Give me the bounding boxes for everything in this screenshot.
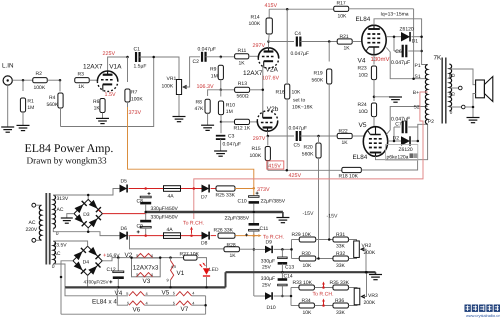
resistor R7 100K plate load [126, 56, 129, 59]
resistor R13 560ohm [221, 89, 235, 91]
svg-text:4,5: 4,5 [171, 264, 176, 269]
ground PSU main [276, 218, 289, 223]
wire V2b plate row 297V [268, 131, 295, 136]
svg-text:Iq=13~15ma: Iq=13~15ma [381, 12, 409, 18]
svg-text:AC: AC [57, 207, 64, 213]
svg-text:R2: R2 [36, 71, 43, 77]
LED red indicator [203, 268, 210, 275]
svg-text:0.047µF: 0.047µF [198, 46, 216, 52]
svg-text:V5: V5 [359, 122, 367, 129]
resistor R18 10K dropper [342, 167, 362, 172]
wire bias left node lower [290, 288, 292, 306]
EL84 heater right edge [205, 296, 207, 314]
wire V4 cathode to R23 [373, 55, 375, 65]
svg-text:C6: C6 [395, 49, 402, 55]
diode D10 bias rectifier [254, 295, 265, 297]
node input junction [22, 79, 25, 82]
resistor R24 10ohm cathode [371, 103, 376, 117]
svg-text:0.047µF: 0.047µF [291, 51, 309, 57]
svg-text:C2: C2 [193, 59, 200, 65]
svg-text:1K: 1K [94, 106, 101, 112]
node -15V left line joins [317, 257, 320, 260]
potentiometer VR3 200K bias balance [354, 288, 360, 305]
svg-text:D8: D8 [201, 240, 208, 246]
diode D1 Z6120 snubber [394, 36, 401, 38]
svg-text:4A: 4A [167, 227, 174, 233]
svg-text:22µF/385V: 22µF/385V [225, 216, 250, 222]
svg-text:AC: AC [29, 220, 36, 226]
svg-text:415V: 415V [265, 3, 278, 9]
fuse 4A upper [164, 186, 181, 192]
svg-text:R24: R24 [358, 102, 367, 108]
svg-text:4: 4 [192, 300, 195, 305]
node V2b plate junction [267, 135, 270, 138]
svg-text:R32: R32 [336, 251, 345, 257]
node D4 left column [60, 276, 63, 279]
bridge rectifier D3 [74, 199, 102, 227]
svg-text:106.3V: 106.3V [197, 84, 214, 90]
transformer 7K output - primary winding [425, 65, 427, 125]
svg-text:10K~16K: 10K~16K [292, 105, 313, 111]
node C8 top [144, 187, 147, 190]
svg-text:373V: 373V [257, 187, 270, 193]
svg-text:V1: V1 [177, 270, 185, 277]
node C6 right branch [420, 50, 423, 53]
ground below R8 [201, 125, 214, 130]
resistor R11 1K grid stopper [235, 54, 249, 59]
svg-text:R31: R31 [336, 232, 345, 238]
svg-text:R27 10K: R27 10K [180, 251, 200, 257]
wire 415V dropper line down through R16 [286, 9, 288, 83]
wire common cathode link V2A-V2b [263, 66, 264, 113]
wire secondary top tap 8ohm [449, 69, 475, 85]
wire junction to R8 [208, 90, 221, 96]
node R34-R36 junction with arrow [322, 304, 325, 307]
svg-text:D1: D1 [412, 38, 419, 44]
capacitor C3 0.047uF [220, 122, 222, 133]
heater link to bias ground bus [225, 272, 227, 287]
wire secondary mid tap 4ohm [449, 87, 458, 89]
resistor R9 1M grid leak [220, 57, 222, 59]
svg-text:R19: R19 [314, 70, 323, 76]
transformer 313V HV secondary winding [53, 195, 55, 229]
svg-text:12AX7: 12AX7 [243, 70, 263, 77]
svg-text:200K: 200K [364, 250, 376, 256]
svg-text:R12 1K: R12 1K [234, 126, 251, 132]
svg-text:R23: R23 [358, 65, 367, 71]
svg-text:4A: 4A [168, 194, 175, 200]
node R33-R35 junction with arrow [322, 286, 325, 289]
triode V2A 12AX7 [258, 48, 278, 58]
wire bus to ground stub [375, 272, 377, 274]
svg-text:12AX7: 12AX7 [83, 63, 103, 70]
wire D3 left to ground [67, 214, 74, 218]
svg-text:12AX7x3: 12AX7x3 [133, 264, 159, 271]
node R9 bottom junction [220, 89, 223, 92]
svg-text:www.crystalradio.cn: www.crystalradio.cn [466, 313, 500, 318]
svg-text:415V: 415V [268, 163, 281, 169]
svg-text:R28: R28 [227, 242, 236, 248]
wire D6 node to R28 bias feed [130, 236, 224, 249]
svg-text:VR3: VR3 [368, 293, 378, 299]
bridge rectifier D4 [73, 246, 102, 275]
svg-text:330µF: 330µF [261, 258, 275, 264]
svg-text:V4: V4 [115, 290, 123, 297]
svg-text:297V: 297V [253, 136, 266, 142]
node C14 to D10 row [281, 295, 284, 298]
svg-text:V2: V2 [125, 252, 133, 259]
node R10 bottom junction [220, 121, 223, 124]
bias ground bus thick [226, 271, 376, 273]
svg-text:R3: R3 [78, 72, 85, 78]
node To R.CH arrow root [190, 234, 193, 237]
svg-text:200K: 200K [364, 300, 376, 306]
wire V1A cathode to R6 [102, 90, 104, 92]
svg-text:297V: 297V [253, 43, 266, 49]
wire speaker return [473, 94, 476, 118]
svg-text:560K: 560K [302, 152, 314, 158]
node R17 joins screen wire [412, 77, 415, 80]
svg-text:10K: 10K [292, 90, 302, 96]
heater element V2 [137, 253, 153, 257]
wire LED to rail [206, 277, 208, 287]
wire D2 branch to P2 riser [418, 124, 428, 127]
svg-text:R15: R15 [252, 146, 261, 152]
svg-text:C4: C4 [295, 31, 302, 37]
svg-text:V4: V4 [358, 58, 366, 65]
svg-text:4Ω: 4Ω [449, 92, 456, 97]
wire D5 to C8 and fuse (red) [129, 188, 163, 190]
svg-text:D6: D6 [121, 226, 128, 232]
wire D6 to fuse (red) [129, 235, 163, 237]
svg-text:10K: 10K [303, 263, 313, 269]
resistor R17 10K [334, 6, 349, 11]
svg-text:C10: C10 [238, 198, 247, 204]
speaker [476, 80, 485, 98]
svg-text:R11: R11 [238, 48, 247, 54]
wire VR1 bottom to ground [178, 95, 180, 117]
node column orange row [253, 234, 256, 237]
svg-text:25V: 25V [262, 283, 272, 289]
svg-text:R35 33K: R35 33K [330, 280, 350, 286]
wire jack to R2 [12, 79, 33, 81]
svg-text:V1A: V1A [109, 63, 122, 70]
node V2A plate junction [267, 40, 270, 43]
arrow orange To R.CH. [255, 234, 262, 237]
wire R17 down to screens [413, 9, 415, 79]
node C13 bus [281, 271, 284, 274]
svg-text:225V: 225V [103, 51, 116, 57]
svg-text:0.047µF: 0.047µF [223, 141, 241, 147]
transformer 13.5V heater winding [53, 241, 55, 264]
resistor R14 100K V2A plate load [268, 9, 270, 17]
wire D4 bottom to rail [87, 275, 89, 287]
node pink line joins PSU row [193, 187, 196, 190]
svg-text:P1: P1 [415, 63, 421, 69]
svg-text:330µF: 330µF [261, 276, 275, 282]
svg-text:373V: 373V [129, 110, 142, 116]
resistor R27 10K LED feed [184, 255, 198, 260]
node 415V row junction [286, 169, 289, 172]
svg-text:100K: 100K [162, 83, 174, 89]
ground below speaker [467, 118, 480, 123]
svg-text:D2: D2 [393, 135, 400, 141]
resistor R35 33K [333, 285, 349, 290]
heater element V1 vertical [169, 256, 172, 259]
capacitor C8 330uF/450V [140, 192, 151, 204]
svg-text:425V: 425V [289, 173, 302, 179]
triode V1A 12AX7 first stage [97, 71, 117, 81]
resistor R21 1K grid stopper V4 [337, 39, 352, 44]
svg-text:100K: 100K [131, 97, 143, 103]
wire D4 left vertex down [61, 261, 73, 314]
svg-text:10Ω: 10Ω [359, 109, 369, 115]
resistor R15 100K V2b plate load [267, 136, 269, 146]
svg-text:AC: AC [54, 251, 61, 257]
diode D9 bias rectifier [254, 248, 265, 250]
resistor R12 1K to V2b grid [221, 121, 235, 123]
svg-text:R22: R22 [339, 129, 348, 135]
heater rail 16.6V [116, 257, 184, 259]
svg-text:To R.CH.: To R.CH. [313, 291, 334, 297]
wire secondary bottom tap 0 [449, 106, 461, 108]
svg-text:LED: LED [209, 267, 219, 273]
transformer power core [45, 193, 47, 265]
wire 13.5V 0 tap down to heater return rail [53, 264, 65, 287]
svg-text:130mV: 130mV [371, 56, 390, 63]
svg-text:330µF/450V: 330µF/450V [151, 215, 179, 221]
svg-text:VR2: VR2 [362, 243, 372, 249]
svg-text:1K: 1K [78, 84, 85, 90]
svg-text:C1: C1 [134, 47, 141, 53]
resistor R19 560K grid return [328, 42, 330, 62]
resistor R33 10K [291, 287, 299, 289]
wire HV winding top tap to D3 and D5 [53, 195, 88, 199]
svg-text:V7: V7 [181, 306, 189, 313]
wire 415V rail top [269, 8, 334, 10]
svg-text:1.5V: 1.5V [105, 92, 116, 98]
node C10 to bus [253, 211, 256, 214]
svg-text:EL84: EL84 [356, 16, 371, 23]
ground cathode resistors [389, 97, 402, 102]
resistor R1 1M [22, 80, 24, 91]
ground bias network [369, 275, 382, 280]
svg-text:22µF/385V: 22µF/385V [261, 198, 286, 204]
EL84 heater bottom return [61, 313, 206, 315]
wire V5 screen lead to D2 [388, 140, 394, 142]
svg-text:R20: R20 [304, 145, 313, 151]
node C4 output [328, 40, 331, 43]
svg-text:R14: R14 [251, 14, 260, 20]
svg-text:R10: R10 [226, 103, 235, 109]
svg-text:33K: 33K [336, 310, 346, 316]
wire V2A plate to row [268, 42, 270, 48]
wire R25 to 373V node (orange) [235, 188, 254, 190]
wire R26 to R.CH (orange) [235, 235, 257, 237]
svg-text:L.IN: L.IN [2, 63, 14, 70]
wire VR1 wiper to C2 [184, 57, 200, 87]
svg-text:C9: C9 [137, 223, 144, 229]
svg-text:5: 5 [173, 291, 175, 296]
resistor R32 33K [333, 256, 349, 261]
wire bus to ground [282, 212, 284, 218]
svg-text:4700µF/25V: 4700µF/25V [84, 280, 110, 285]
wire to ground [374, 96, 396, 98]
resistor R4 560K [59, 80, 61, 91]
svg-text:-15V: -15V [327, 214, 338, 220]
svg-text:10K: 10K [303, 310, 313, 316]
svg-text:7K: 7K [434, 55, 443, 62]
svg-text:33K: 33K [336, 244, 346, 250]
watermark crystalradio logo [465, 305, 500, 312]
resistor R3 1K [75, 78, 90, 83]
node speaker return to 0 tap [472, 106, 475, 109]
wire 415V distribution row [268, 169, 342, 171]
heater box 12AX7x3 [132, 258, 161, 277]
transformer core [441, 58, 443, 124]
svg-text:9: 9 [167, 277, 169, 282]
svg-text:560Ω: 560Ω [237, 93, 249, 99]
wire R7 bottom 373V feed (orange) down and right to PSU [128, 107, 254, 188]
wire VR3 wiper to bus [363, 272, 367, 296]
wire fuse to D7 (red) [181, 188, 202, 190]
triode V2b 12AX7 (inverted) [257, 121, 277, 131]
resistor R10 1M [220, 90, 222, 97]
svg-text:R26 33K: R26 33K [214, 228, 234, 234]
svg-text:R9: R9 [210, 67, 217, 73]
svg-text:R8: R8 [196, 99, 203, 105]
svg-text:C3: C3 [228, 134, 235, 140]
svg-text:5: 5 [136, 272, 138, 277]
node C2 output [220, 56, 223, 59]
resistor R8 47K [205, 99, 210, 113]
svg-text:10Ω: 10Ω [359, 72, 369, 78]
svg-text:R21: R21 [340, 34, 349, 40]
diode D6 negative rectifier [120, 232, 128, 240]
connector L.IN input jack [3, 76, 12, 85]
svg-text:560K: 560K [47, 102, 59, 108]
svg-text:5: 5 [126, 291, 128, 296]
wire S1 screen tap to V4 [386, 48, 427, 79]
capacitor C1 1.5uF coupling [136, 52, 140, 62]
pentode V5 EL84 lower output tube (inverted) [363, 127, 387, 157]
node cathode junction with R13 [262, 89, 265, 92]
wire D1 parallel branch verticals [393, 37, 395, 51]
svg-text:1K: 1K [239, 60, 246, 66]
ground below VR1 [173, 117, 186, 122]
wire HV winding 0 tap to D3 and D6 [53, 229, 119, 236]
svg-text:1K: 1K [342, 140, 349, 146]
svg-text:1K: 1K [230, 253, 237, 259]
svg-text:R36: R36 [335, 298, 344, 304]
svg-text:100K: 100K [250, 153, 262, 159]
resistor R23 10ohm cathode [371, 66, 376, 80]
svg-text:D9: D9 [266, 240, 273, 246]
svg-text:P2: P2 [428, 119, 434, 125]
svg-text:25V: 25V [262, 265, 272, 271]
node D2 cathode branch [417, 140, 420, 143]
svg-text:D3: D3 [83, 212, 90, 218]
svg-text:S1: S1 [415, 74, 421, 80]
wire D3 plus to C8/C9 midpoint (red) [102, 212, 145, 214]
wire R4 bottom return loop to C1 output [61, 57, 154, 127]
node -15V right line joins [328, 238, 331, 241]
resistor R2 100K [33, 78, 48, 83]
resistor R31 33K [333, 237, 349, 242]
ground below input jack [1, 127, 14, 132]
node D2 anode branch [393, 140, 396, 143]
svg-text:1M: 1M [27, 105, 34, 111]
svg-text:Z6120: Z6120 [399, 147, 413, 153]
svg-text:C5: C5 [294, 143, 301, 149]
capacitor C2 0.047uF [202, 52, 206, 62]
ground below R6 [96, 118, 109, 123]
svg-text:set to: set to [293, 98, 305, 104]
wire B+ tap pink to 425V rail [194, 92, 428, 219]
wire C1 to VR1 [140, 57, 180, 81]
svg-text:8Ω: 8Ω [449, 73, 456, 78]
wire VR2 wiper to bus [363, 249, 367, 272]
capacitor C12 4700uF/25V [117, 256, 120, 259]
svg-text:107.6V: 107.6V [262, 76, 279, 82]
diode D7 [202, 185, 210, 193]
svg-text:100K: 100K [249, 21, 261, 27]
svg-text:R4: R4 [49, 95, 56, 101]
svg-text:EL84 x 4: EL84 x 4 [92, 299, 117, 306]
svg-text:220V: 220V [26, 227, 38, 233]
svg-text:To R.CH.: To R.CH. [183, 220, 204, 226]
svg-text:R25 33K: R25 33K [216, 193, 236, 199]
svg-text:C11: C11 [260, 226, 269, 232]
svg-text:0.047µF: 0.047µF [391, 60, 410, 66]
svg-text:C13: C13 [285, 264, 294, 270]
diode D2 Z6120 snubber [394, 140, 401, 142]
label 415V node boxed [267, 161, 284, 169]
svg-text:0: 0 [52, 264, 55, 270]
svg-text:0: 0 [450, 110, 453, 115]
svg-text:33K: 33K [336, 263, 346, 269]
capacitor C4 0.047uF coupling [269, 41, 295, 43]
svg-text:560K: 560K [312, 77, 324, 83]
svg-text:R30: R30 [302, 251, 311, 257]
label Z6120 substitution box [386, 145, 418, 161]
svg-text:R17: R17 [337, 1, 346, 7]
node column D9 row [253, 248, 256, 251]
svg-text:V6: V6 [133, 306, 141, 313]
capacitor C7 0.047uF snubber [393, 127, 395, 141]
node D1 anode branch [393, 35, 396, 38]
arrow To R.CH. from negative row [190, 227, 193, 234]
ground below R1 [17, 125, 30, 130]
node 373V junction [253, 187, 256, 190]
resistor R28 1K [224, 247, 240, 252]
svg-text:p6ke120a: p6ke120a [387, 154, 409, 160]
svg-text:5: 5 [173, 300, 175, 305]
svg-text:R7: R7 [131, 90, 138, 96]
svg-text:D5: D5 [121, 178, 128, 184]
node bus left end [144, 211, 147, 214]
wire D4 right vertex to 16.6V rail [102, 258, 116, 261]
svg-text:R29 10K: R29 10K [292, 232, 312, 238]
svg-text:1K: 1K [344, 46, 351, 52]
svg-text:D4: D4 [83, 259, 90, 265]
node R2-R3 junction [59, 79, 62, 82]
svg-text:S2: S2 [414, 105, 420, 111]
svg-text:-15V: -15V [303, 211, 314, 217]
ground below C3 [214, 151, 227, 156]
svg-text:EL84: EL84 [353, 154, 368, 161]
wire C4 to R21/R19 node [300, 41, 337, 43]
